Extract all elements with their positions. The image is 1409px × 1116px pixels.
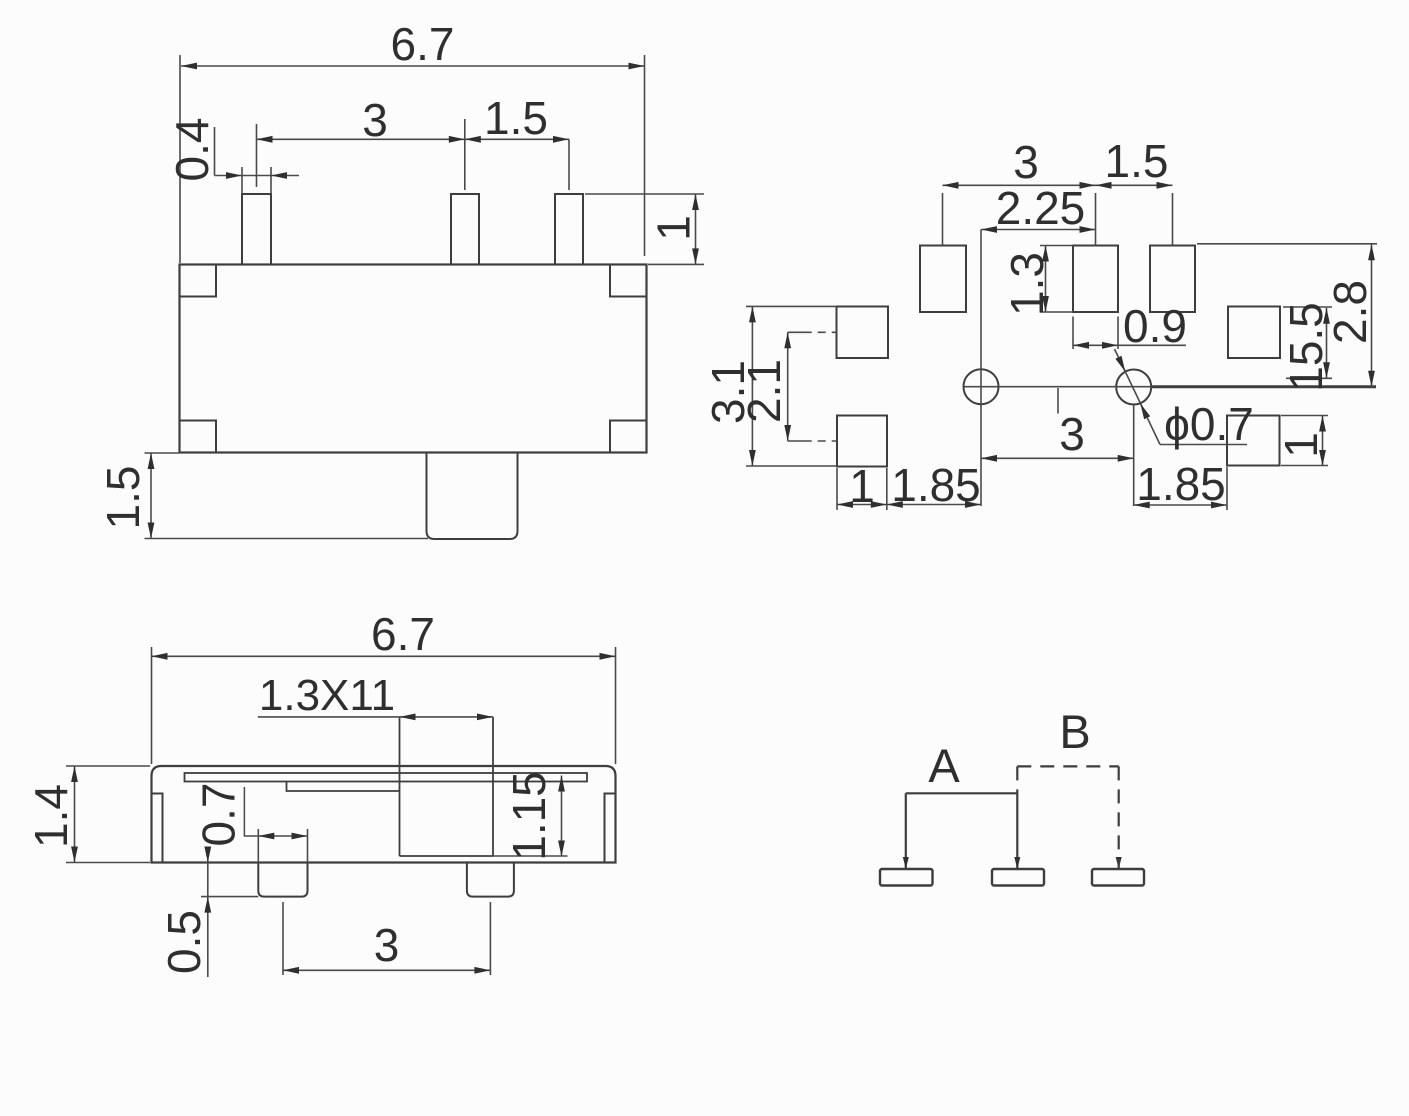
svg-text:ϕ0.7: ϕ0.7 xyxy=(1164,398,1254,450)
svg-text:B: B xyxy=(1059,705,1090,758)
svg-text:0.5: 0.5 xyxy=(158,910,210,974)
svg-text:1.3X11: 1.3X11 xyxy=(259,671,395,720)
svg-text:6.7: 6.7 xyxy=(371,608,435,660)
svg-text:1: 1 xyxy=(648,215,700,241)
svg-text:6.7: 6.7 xyxy=(391,18,455,70)
svg-text:1.5: 1.5 xyxy=(97,466,149,530)
svg-text:1.4: 1.4 xyxy=(25,784,77,848)
svg-text:3: 3 xyxy=(362,94,388,146)
svg-text:1.5: 1.5 xyxy=(484,92,548,144)
svg-text:1.85: 1.85 xyxy=(1136,458,1226,510)
svg-text:1.85: 1.85 xyxy=(891,459,981,511)
svg-text:1.3: 1.3 xyxy=(1001,252,1053,316)
svg-text:0.7: 0.7 xyxy=(193,783,245,847)
svg-text:A: A xyxy=(928,739,960,792)
svg-text:0.4: 0.4 xyxy=(166,118,218,182)
svg-text:2.25: 2.25 xyxy=(996,182,1086,234)
svg-text:1.15: 1.15 xyxy=(503,771,555,861)
svg-text:2.1: 2.1 xyxy=(738,359,790,423)
svg-text:3: 3 xyxy=(1013,136,1039,188)
svg-text:0.9: 0.9 xyxy=(1123,300,1187,352)
svg-text:3: 3 xyxy=(1059,408,1085,460)
svg-text:1.5: 1.5 xyxy=(1105,135,1169,187)
svg-text:1: 1 xyxy=(849,460,875,512)
svg-text:3: 3 xyxy=(374,919,400,971)
svg-text:1: 1 xyxy=(1275,432,1327,458)
svg-text:2.8: 2.8 xyxy=(1324,280,1376,344)
